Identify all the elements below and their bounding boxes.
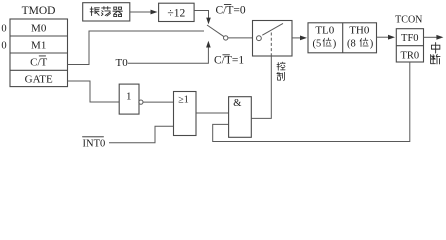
glyph 振 <box>90 7 99 16</box>
TL0/TH0 counter box <box>308 23 377 53</box>
glyph 荡 <box>101 7 110 16</box>
control gate box <box>253 21 293 57</box>
svg-text:GATE: GATE <box>25 74 53 86</box>
AND gate (&) <box>229 97 252 138</box>
inner lever <box>262 23 283 35</box>
AND output wire up to control gate <box>251 56 271 118</box>
glyph 制 <box>277 72 285 80</box>
svg-text:TR0: TR0 <box>400 50 419 61</box>
wire control box to TL0 <box>292 37 303 39</box>
svg-text:): ) <box>333 39 337 50</box>
svg-text:TCON: TCON <box>395 15 422 26</box>
svg-text:C/T: C/T <box>30 57 47 69</box>
svg-text:1: 1 <box>126 91 132 103</box>
label 控制 (control) <box>277 62 285 80</box>
svg-text:T0: T0 <box>116 57 129 69</box>
TMOD register table <box>1 5 67 87</box>
svg-text:≥1: ≥1 <box>178 95 189 106</box>
switch S1 lever <box>207 25 224 37</box>
svg-text:TF0: TF0 <box>401 33 419 44</box>
wire INT0 to OR gate <box>109 126 174 142</box>
svg-text:TH0: TH0 <box>349 25 370 37</box>
inverter output bubble <box>139 100 143 104</box>
switch S1 pole <box>224 36 228 40</box>
svg-text:TMOD: TMOD <box>22 5 56 17</box>
TCON TF0/TR0 box <box>396 29 423 62</box>
interrupt arrow from TF0 <box>424 36 440 38</box>
inverter box 1 <box>119 84 143 114</box>
label C/T=0 <box>216 4 246 16</box>
svg-text:&: & <box>233 98 241 109</box>
svg-text:C/T=0: C/T=0 <box>216 4 246 16</box>
oscillator box 振荡器 <box>83 3 130 21</box>
glyph 器 <box>113 7 122 17</box>
wire pole to control box <box>228 37 253 39</box>
label 中断 (interrupt) <box>431 43 440 64</box>
C/T control wire from TMOD <box>68 31 205 65</box>
svg-text:M1: M1 <box>31 40 46 52</box>
glyph 中 <box>431 43 439 54</box>
OR gate (>=1) <box>174 92 197 136</box>
divide-by-12 box <box>159 3 195 21</box>
wire TR0 to AND gate (bottom return) <box>213 62 410 142</box>
glyph 断 <box>431 54 440 64</box>
inner contact <box>257 36 262 41</box>
svg-text:(5: (5 <box>313 39 322 50</box>
svg-text:0: 0 <box>1 41 6 52</box>
TMOD table box <box>10 19 68 87</box>
label C/T=1 <box>214 55 244 67</box>
dashed control link <box>270 33 272 57</box>
wire inverter to OR gate <box>143 101 174 103</box>
(5位) label <box>313 38 337 50</box>
arrow oscillator to divider <box>130 11 153 13</box>
(8 位) label <box>347 38 374 50</box>
svg-text:(8: (8 <box>347 39 356 50</box>
svg-text:M0: M0 <box>31 22 47 34</box>
svg-text:): ) <box>370 39 374 50</box>
svg-text:TL0: TL0 <box>315 25 334 37</box>
wire T0 to switch contact C/T=1 <box>128 46 209 63</box>
svg-text:÷12: ÷12 <box>167 7 185 19</box>
svg-text:C/T=1: C/T=1 <box>214 55 244 67</box>
svg-text:0: 0 <box>1 23 6 34</box>
wire TH0 to TCON <box>377 36 392 38</box>
GATE control wire from TMOD <box>68 81 120 102</box>
svg-text:INT0: INT0 <box>83 138 106 148</box>
wire OR to AND gate <box>196 112 229 114</box>
glyph 控 <box>277 62 285 70</box>
INT0 input label <box>83 137 106 150</box>
wire divider output to switch contact C/T=0 <box>194 11 208 20</box>
